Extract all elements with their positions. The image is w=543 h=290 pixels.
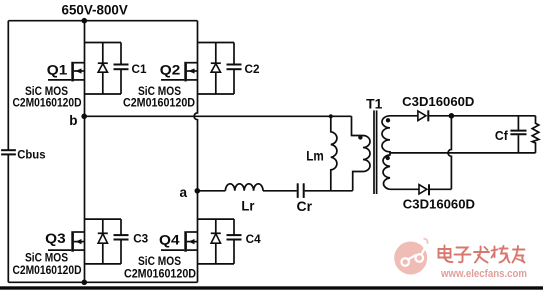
svg-text:T1: T1 (366, 97, 383, 112)
svg-text:C4: C4 (246, 232, 261, 246)
svg-text:650V-800V: 650V-800V (62, 1, 129, 17)
svg-text:C2M0160120D: C2M0160120D (13, 95, 82, 109)
svg-text:b: b (69, 113, 77, 128)
svg-text:Q4: Q4 (159, 233, 180, 248)
svg-text:C2M0160120D: C2M0160120D (124, 266, 196, 280)
svg-text:Lm: Lm (306, 148, 324, 163)
svg-text:Cf: Cf (495, 128, 509, 143)
svg-text:Q1: Q1 (47, 62, 68, 77)
svg-text:Q3: Q3 (45, 231, 66, 246)
svg-text:Q2: Q2 (160, 62, 181, 77)
svg-text:C3: C3 (133, 231, 148, 245)
svg-text:www.elecfans.com: www.elecfans.com (440, 268, 527, 280)
svg-text:Lr: Lr (241, 199, 255, 214)
svg-text:C2M0160120D: C2M0160120D (13, 263, 82, 277)
svg-text:C2M0160120D: C2M0160120D (123, 95, 195, 109)
svg-text:Cbus: Cbus (17, 148, 46, 162)
svg-text:C3D16060D: C3D16060D (403, 196, 475, 211)
svg-text:a: a (180, 185, 188, 200)
svg-text:C1: C1 (132, 62, 147, 76)
svg-text:Cr: Cr (297, 199, 313, 214)
svg-text:C2: C2 (245, 62, 260, 76)
svg-text:C3D16060D: C3D16060D (402, 94, 474, 109)
